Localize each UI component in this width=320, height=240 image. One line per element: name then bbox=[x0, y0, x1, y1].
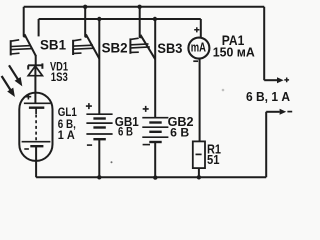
svg-text:1 А: 1 А bbox=[58, 129, 76, 142]
node: junction dot inner bus / GB2 bbox=[153, 17, 157, 21]
svg-text:150 мА: 150 мА bbox=[213, 45, 255, 60]
battery GB2 bbox=[142, 19, 168, 177]
node: junction dot outer bus / SB3 bbox=[137, 5, 141, 9]
svg-text:SB1: SB1 bbox=[40, 36, 66, 52]
pushbutton SB1 bbox=[11, 34, 36, 65]
terminal: plus output arrow bbox=[264, 77, 289, 83]
node: junction dot inner bus / GB1 bbox=[97, 17, 101, 21]
node: junction dot bottom bus / GB2 bbox=[153, 175, 157, 179]
svg-text:mA: mA bbox=[191, 40, 206, 54]
node: junction dot bottom bus / R1 bbox=[197, 175, 201, 179]
solar cell GL1 bbox=[19, 93, 52, 178]
diode VD1 (zener) bbox=[28, 63, 43, 103]
ammeter PA1 bbox=[188, 19, 209, 141]
pushbutton SB2 bbox=[73, 7, 99, 59]
battery GB1 bbox=[86, 19, 113, 177]
pushbutton SB3 bbox=[130, 7, 155, 59]
svg-text:SB2: SB2 bbox=[102, 40, 128, 56]
wire: inner bus left end drop bbox=[38, 19, 40, 36]
wire: top outer bus bbox=[24, 6, 265, 8]
svg-text:1S3: 1S3 bbox=[51, 71, 68, 84]
wire: SB1 top terminal from outer bus bbox=[23, 7, 25, 37]
scan speck near bottom bus bbox=[111, 161, 113, 163]
resistor R1 bbox=[193, 141, 205, 177]
terminal: minus output arrow bbox=[266, 109, 292, 115]
node: junction dot outer bus / SB2 bbox=[83, 5, 87, 9]
svg-text:SB3: SB3 bbox=[157, 40, 182, 56]
scan speck near output label bbox=[222, 89, 225, 92]
svg-text:6 В: 6 В bbox=[118, 125, 133, 139]
svg-text:51: 51 bbox=[207, 152, 220, 167]
wire: plus output drop from outer bus bbox=[263, 7, 265, 80]
svg-text:6 В, 1 А: 6 В, 1 А bbox=[246, 89, 290, 104]
wire: inner bus bbox=[39, 18, 201, 20]
wire: bottom bus bbox=[36, 176, 266, 178]
light arrow 2 at GL1 bbox=[2, 76, 15, 96]
node: junction dot bottom bus / GB1 bbox=[97, 175, 101, 179]
wire: minus output riser from bottom bus bbox=[265, 112, 267, 178]
svg-text:6 В: 6 В bbox=[170, 125, 189, 139]
light arrow 1 at GL1 bbox=[9, 65, 22, 85]
